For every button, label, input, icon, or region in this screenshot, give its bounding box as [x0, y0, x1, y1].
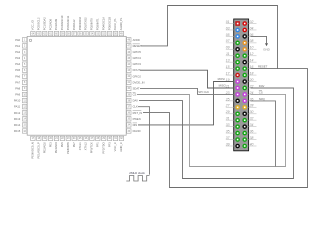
svg-text:PWEN: PWEN [133, 117, 141, 121]
header J1 pin 13 lead [226, 59, 234, 63]
header J1 pin 3 lead [226, 26, 234, 30]
header J1 pin 31 lead [226, 117, 234, 121]
svg-text:GPIO4: GPIO4 [133, 56, 142, 60]
header J1 pin 18 lead [249, 71, 257, 75]
header J1 pin 13 (GPIO) [235, 60, 240, 65]
IC U1 right pin 45 (GPIO4) [127, 56, 142, 60]
header J1 pin 23 (SPI) [235, 92, 240, 97]
IC U1 top pin 49 (AGND_PL) [119, 17, 123, 36]
IC U1 left pin 15 (PA14) [14, 123, 27, 127]
svg-text:DIN: DIN [133, 123, 138, 127]
IC U1 right pin 39 (CS) [127, 92, 137, 96]
svg-text:37: 37 [226, 136, 230, 140]
svg-text:PE0/ADC0_N: PE0/ADC0_N [31, 142, 35, 158]
header J1 pin 6 (GND) [242, 34, 247, 39]
svg-text:02: 02 [250, 20, 254, 24]
IC U1 right pin 46 (GPIO5) [127, 50, 142, 54]
svg-text:RESET: RESET [133, 44, 142, 48]
header J1 pin 37 lead [226, 136, 234, 140]
header J1 pin 27 (ID) [235, 105, 240, 110]
header J1 pin 24 (SPI) [242, 92, 247, 97]
header J1 body [234, 19, 249, 151]
header J1 pin 28 (ID) [242, 105, 247, 110]
header J1 pin 39 (GND) [235, 144, 240, 149]
IC U1 body [27, 36, 126, 135]
svg-text:12: 12 [250, 52, 254, 56]
header J1 pin 21 lead [225, 84, 234, 88]
svg-text:PA8: PA8 [15, 86, 20, 90]
IC U1 left pin 8 (PA7) [15, 80, 26, 84]
IC U1 left pin 1 (PA0) [15, 38, 26, 42]
svg-text:PA12: PA12 [14, 111, 21, 115]
svg-text:DVDD_IN: DVDD_IN [133, 80, 145, 84]
IC U1 bottom pin 30 (PF3) [107, 136, 111, 147]
header J1 pin 14 (GND) [242, 60, 247, 65]
svg-text:33: 33 [226, 123, 230, 127]
header J1 pin 26 lead [249, 97, 257, 101]
IC U1 bottom pin 24 (PE7) [72, 136, 76, 147]
IC U1 top pin 56 (PD0/RXD2) [78, 17, 82, 36]
IC U1 left pin 9 (PA8) [15, 86, 26, 90]
svg-text:PE3: PE3 [48, 142, 52, 148]
header J1 pin 34 (GND) [242, 124, 247, 129]
header J1 pin 36 lead [249, 130, 257, 134]
svg-text:PA9: PA9 [15, 93, 20, 97]
svg-text:18: 18 [250, 71, 254, 75]
svg-text:PA13: PA13 [14, 117, 21, 121]
svg-text:XTAL1: XTAL1 [78, 142, 82, 151]
header J1 pin 9 (GND) [235, 47, 240, 52]
svg-text:38: 38 [250, 136, 254, 140]
header J1 pin 16 (GPIO) [242, 66, 247, 71]
wire RESET (IC pin 47) to top loop, pin16 column [141, 6, 278, 69]
svg-text:04: 04 [250, 26, 254, 30]
IC U1 left pin 2 (PA1) [15, 44, 26, 48]
svg-text:35: 35 [226, 130, 230, 134]
header J1 pin 6 lead [249, 33, 257, 37]
svg-text:2MHz clock: 2MHz clock [129, 171, 145, 175]
wire pin26 branch to CS loop [251, 101, 276, 167]
header J1 pin 11 lead [226, 52, 234, 56]
header J1 pin 10 lead [249, 46, 257, 50]
IC U1 bottom pin 19 (PE2/AD2) [42, 136, 46, 153]
svg-text:PC5/ADC11: PC5/ADC11 [66, 15, 70, 30]
svg-text:AVDD: AVDD [133, 38, 140, 42]
svg-text:PA1: PA1 [15, 44, 20, 48]
svg-text:DGND: DGND [133, 129, 141, 133]
svg-text:PA11: PA11 [14, 105, 21, 109]
header J1 pin 2 (5V) [242, 21, 247, 26]
IC U1 left pin 12 (PA11) [14, 104, 27, 108]
IC U1 top pin 60 (PC3/AD9) [54, 18, 58, 35]
header J1 pin 17 lead [226, 71, 234, 75]
header J1 pin 29 (GPIO) [235, 111, 240, 116]
header J1 pin 20 lead [249, 78, 257, 82]
svg-text:PA4: PA4 [15, 62, 20, 66]
wire CLK to clock source [138, 107, 150, 175]
svg-text:PF1: PF1 [96, 142, 100, 147]
svg-text:PC4/ADC10: PC4/ADC10 [60, 15, 64, 30]
svg-text:PA0: PA0 [15, 38, 20, 42]
svg-text:SRQ: SRQ [259, 97, 266, 101]
IC U1 bottom pin 23 (PE6/INT6) [66, 136, 70, 154]
header J1 pin 19 (SPI) [235, 79, 240, 84]
svg-text:28: 28 [249, 104, 254, 108]
IC U1 right pin 38 (DAV) [127, 98, 139, 102]
header J1 pin 35 lead [226, 130, 234, 134]
header J1 pin 31 (GPIO) [235, 118, 240, 123]
header J1 pin 15 (GPIO) [235, 66, 240, 71]
IC U1 top pin 55 (PD1/TXD2) [84, 17, 88, 36]
header J1 pin 29 lead [225, 110, 234, 114]
svg-text:08: 08 [250, 39, 254, 43]
svg-text:10: 10 [250, 46, 254, 50]
wire DIN from IC pin 34 to MOSI pin19 [138, 82, 234, 125]
IC U1 right pin 36 (RST_IN) [127, 111, 143, 115]
svg-text:PD2/INT0: PD2/INT0 [90, 18, 94, 30]
svg-text:XTAL2: XTAL2 [84, 142, 88, 151]
svg-text:PA5: PA5 [15, 68, 20, 72]
svg-text:MOSI: MOSI [218, 77, 225, 81]
clock source 2MHz [126, 171, 149, 181]
header J1 pin 17 (3V3) [235, 73, 240, 78]
IC U1 top pin 61 (PC2/AD8) [48, 18, 52, 35]
header J1 pin 9 lead [226, 46, 234, 50]
svg-text:MISO: MISO [219, 83, 227, 87]
svg-text:PE2/AD2: PE2/AD2 [42, 142, 46, 154]
IC U1 top pin 63 (PC0/SCL2) [37, 17, 41, 36]
IC U1 bottom pin 31 (VCC_C) [113, 136, 117, 151]
svg-text:PF2/TDO: PF2/TDO [101, 142, 105, 153]
svg-text:DOUT: DOUT [133, 68, 141, 72]
svg-text:DAV: DAV [133, 99, 139, 103]
svg-text:CLK: CLK [133, 105, 138, 109]
IC U1 bottom pin 17 (PE0/ADC0_N) [31, 136, 35, 158]
header J1 pin 8 lead [249, 39, 257, 43]
IC U1 left pin 6 (PA5) [15, 68, 26, 72]
IC U1 right pin 35 (PWEN) [127, 117, 141, 121]
svg-text:VCC_C: VCC_C [113, 142, 117, 151]
svg-text:GPIO3: GPIO3 [133, 62, 142, 66]
header J1 pin 27 lead [225, 104, 234, 108]
IC U1 top pin 52 (PD4/OC1A) [101, 17, 105, 36]
IC U1 left pin 7 (PA6) [15, 74, 26, 78]
svg-text:PA2: PA2 [15, 50, 20, 54]
IC U1 right pin 44 (GPIO3) [127, 62, 142, 66]
svg-text:PA6: PA6 [15, 74, 20, 78]
svg-text:AVCC_PL: AVCC_PL [113, 18, 117, 31]
wire CS loop to pin24 [137, 94, 286, 166]
IC U1 right pin 47 (RESET) [127, 44, 142, 48]
IC U1 right pin 33 (DGND) [127, 129, 141, 133]
header J1 pin 5 lead [226, 33, 234, 37]
header J1 pin 11 (GPIO) [235, 53, 240, 58]
svg-text:17: 17 [226, 71, 230, 75]
svg-text:07: 07 [226, 39, 230, 43]
header J1 pin 24 lead [249, 91, 257, 95]
header J1 pin 1 lead [226, 20, 234, 24]
header J1 pin 40 lead [249, 142, 257, 146]
IC U1 bottom pin 28 (PF1) [96, 136, 100, 147]
header J1 pin 25 lead [225, 97, 234, 101]
svg-text:PA14: PA14 [14, 123, 21, 127]
svg-text:SDAT: SDAT [133, 86, 140, 90]
svg-text:39: 39 [226, 142, 230, 146]
svg-text:PE5: PE5 [60, 142, 64, 148]
svg-text:27: 27 [225, 104, 230, 108]
IC U1 left pin 13 (PA12) [14, 111, 27, 115]
header J1 pin 2 lead [249, 20, 257, 24]
svg-text:01: 01 [226, 20, 230, 24]
svg-text:CS: CS [133, 93, 137, 97]
header J1 pin 8 (UART) [242, 41, 247, 46]
header J1 pin 38 lead [249, 136, 257, 140]
svg-text:GPIO2: GPIO2 [133, 74, 142, 78]
IC U1 top pin 58 (PC5/ADC11) [66, 15, 70, 36]
header J1 pin 22 (GPIO) [242, 86, 247, 91]
IC U1 bottom pin 18 (PE1/ADC0_P) [37, 136, 41, 158]
svg-text:PE7: PE7 [72, 142, 76, 148]
IC U1 bottom pin 20 (PE3) [48, 136, 52, 147]
wire GND from pin6 [251, 36, 267, 43]
header J1 pin 12 (GPIO) [242, 53, 247, 58]
svg-text:GPIO5: GPIO5 [133, 50, 142, 54]
IC U1 right pin 42 (GPIO2) [127, 74, 142, 78]
IC U1 top pin 51 (PD5/OC1B) [107, 17, 111, 36]
svg-text:PC0/SCL2: PC0/SCL2 [37, 17, 41, 30]
svg-text:PC6/A12: PC6/A12 [72, 19, 76, 30]
svg-text:DAV: DAV [259, 84, 265, 88]
header J1 pin 23 lead [225, 91, 234, 95]
IC U1 top pin 59 (PC4/ADC10) [60, 15, 64, 36]
svg-text:34: 34 [250, 123, 254, 127]
header J1 pin 1 (3V3) [235, 21, 240, 26]
IC U1 right pin 34 (DIN) [127, 123, 138, 127]
header J1 pin 14 lead [249, 59, 257, 63]
IC U1 top pin 53 (PD3/INT1) [96, 18, 100, 36]
IC U1 top pin 54 (PD2/INT0) [90, 18, 94, 36]
svg-text:PE4/AD4: PE4/AD4 [54, 142, 58, 154]
IC U1 left pin 10 (PA9) [15, 92, 26, 96]
svg-text:PA15: PA15 [14, 129, 21, 133]
svg-text:PD4/OC1A: PD4/OC1A [101, 17, 105, 31]
header J1 pin 5 (I2C) [235, 34, 240, 39]
IC U1 right pin 40 (SDAT) [127, 86, 140, 90]
IC U1 top pin 57 (PC6/A12) [72, 19, 76, 36]
svg-text:09: 09 [226, 46, 230, 50]
svg-text:PF0/TCK: PF0/TCK [90, 142, 94, 153]
header J1 pin 30 lead [249, 110, 257, 114]
header J1 pin 7 (GPIO) [235, 41, 240, 46]
IC U1 right pin 48 (AVDD) [127, 38, 140, 42]
svg-text:32: 32 [250, 117, 254, 121]
header J1 pin 19 lead [226, 78, 234, 82]
IC U1 bottom pin 25 (XTAL1) [78, 136, 82, 150]
svg-text:PD0/RXD2: PD0/RXD2 [78, 17, 82, 31]
header J1 pin 40 (GPIO) [242, 144, 247, 149]
header J1 pin 34 lead [249, 123, 257, 127]
IC U1 top pin 62 (PC1/SDA2) [42, 17, 46, 36]
svg-text:GND: GND [263, 48, 271, 52]
wire RESET pin16 row across to right loop [143, 69, 308, 188]
header J1 pin 25 (GND) [235, 99, 240, 104]
IC U1 bottom pin 32 (GND_C) [119, 136, 123, 151]
header J1 pin 7 lead [226, 39, 234, 43]
header J1 pin 33 (GPIO) [235, 124, 240, 129]
header J1 pin 30 (GND) [242, 111, 247, 116]
header J1 pin 4 (5V) [242, 28, 247, 33]
svg-text:PA3: PA3 [15, 56, 20, 60]
svg-text:VCC_IO: VCC_IO [31, 20, 35, 30]
IC U1 right pin 37 (CLK) [127, 104, 138, 108]
header J1 pin 4 lead [249, 26, 257, 30]
header J1 pin 21 (SPI) [235, 86, 240, 91]
svg-text:31: 31 [226, 117, 230, 121]
svg-text:PC1/SDA2: PC1/SDA2 [42, 17, 46, 31]
wire DAV loop to pin22 [139, 88, 294, 179]
IC U1 top pin 50 (AVCC_PL) [113, 18, 117, 36]
svg-text:PA7: PA7 [15, 80, 20, 84]
header J1 pin 18 (GPIO) [242, 73, 247, 78]
svg-text:PC3/AD9: PC3/AD9 [54, 18, 58, 30]
svg-text:RESET: RESET [258, 65, 268, 69]
svg-text:SPI CLK: SPI CLK [198, 90, 209, 94]
svg-text:03: 03 [226, 26, 230, 30]
header J1 pin 32 (GPIO) [242, 118, 247, 123]
IC U1 left pin 5 (PA4) [15, 62, 26, 66]
svg-text:AGND_PL: AGND_PL [119, 17, 123, 30]
svg-text:PF3: PF3 [107, 142, 111, 147]
header J1 pin 12 lead [249, 52, 257, 56]
IC U1 right pin 41 (DVDD_IN) [127, 80, 145, 84]
svg-text:GND_C: GND_C [119, 142, 123, 151]
IC U1 left pin 4 (PA3) [15, 56, 26, 60]
svg-text:25: 25 [225, 97, 230, 101]
IC U1 bottom pin 29 (PF2/TDO) [101, 136, 105, 153]
IC U1 left pin 14 (PA13) [14, 117, 27, 121]
header J1 pin 15 lead [226, 65, 234, 69]
IC U1 pin-1 marker [29, 39, 31, 41]
svg-text:05: 05 [226, 33, 230, 37]
header J1 pin 37 (GPIO) [235, 137, 240, 142]
svg-text:PE6/INT6: PE6/INT6 [66, 142, 70, 154]
svg-text:PD5/OC1B: PD5/OC1B [107, 17, 111, 31]
svg-text:PC2/AD8: PC2/AD8 [48, 18, 52, 30]
header J1 pin 35 (GPIO) [235, 131, 240, 136]
svg-text:PD1/TXD2: PD1/TXD2 [84, 17, 88, 30]
IC U1 left pin 16 (PA15) [14, 129, 27, 133]
IC U1 left pin 11 (PA10) [14, 98, 27, 102]
header J1 pin 20 (GND) [242, 79, 247, 84]
svg-text:15: 15 [226, 65, 230, 69]
IC U1 bottom pin 22 (PE5) [60, 136, 64, 147]
header J1 pin 36 (GPIO) [242, 131, 247, 136]
header J1 pin 39 lead [226, 142, 234, 146]
header J1 pin 3 (I2C) [235, 28, 240, 33]
svg-text:RST_IN: RST_IN [133, 111, 143, 115]
svg-text:14: 14 [250, 59, 254, 63]
IC U1 left pin 3 (PA2) [15, 50, 26, 54]
svg-text:20: 20 [249, 78, 254, 82]
IC U1 bottom pin 26 (XTAL2) [84, 136, 88, 150]
svg-text:PD3/INT1: PD3/INT1 [96, 18, 100, 30]
IC U1 bottom pin 27 (PF0/TCK) [90, 136, 94, 153]
header J1 pin 33 lead [226, 123, 234, 127]
svg-text:30: 30 [250, 110, 254, 114]
svg-text:11: 11 [226, 52, 230, 56]
header J1 pin 32 lead [249, 117, 257, 121]
IC U1 top pin 64 (VCC_IO) [31, 20, 35, 36]
header J1 pin 16 lead [249, 65, 257, 69]
header J1 pin 10 (UART) [242, 47, 247, 52]
svg-text:40: 40 [250, 142, 254, 146]
svg-text:PE1/ADC0_P: PE1/ADC0_P [37, 142, 41, 158]
svg-text:29: 29 [225, 110, 230, 114]
header J1 pin 22 lead [249, 84, 257, 88]
wire DOUT to MISO pin21 [140, 70, 234, 88]
svg-text:CS: CS [259, 90, 263, 94]
header J1 pin 28 lead [249, 104, 257, 108]
ground symbol GND [263, 43, 271, 51]
IC U1 bottom pin 21 (PE4/AD4) [54, 136, 58, 153]
svg-text:PA10: PA10 [14, 99, 21, 103]
header J1 pin 26 (SPI) [242, 99, 247, 104]
wire SPI CLK to pin23 [140, 88, 234, 94]
header J1 pin 38 (GPIO) [242, 137, 247, 142]
svg-text:36: 36 [250, 130, 254, 134]
svg-text:13: 13 [226, 59, 230, 63]
IC U1 right pin 43 (DOUT) [127, 68, 141, 72]
